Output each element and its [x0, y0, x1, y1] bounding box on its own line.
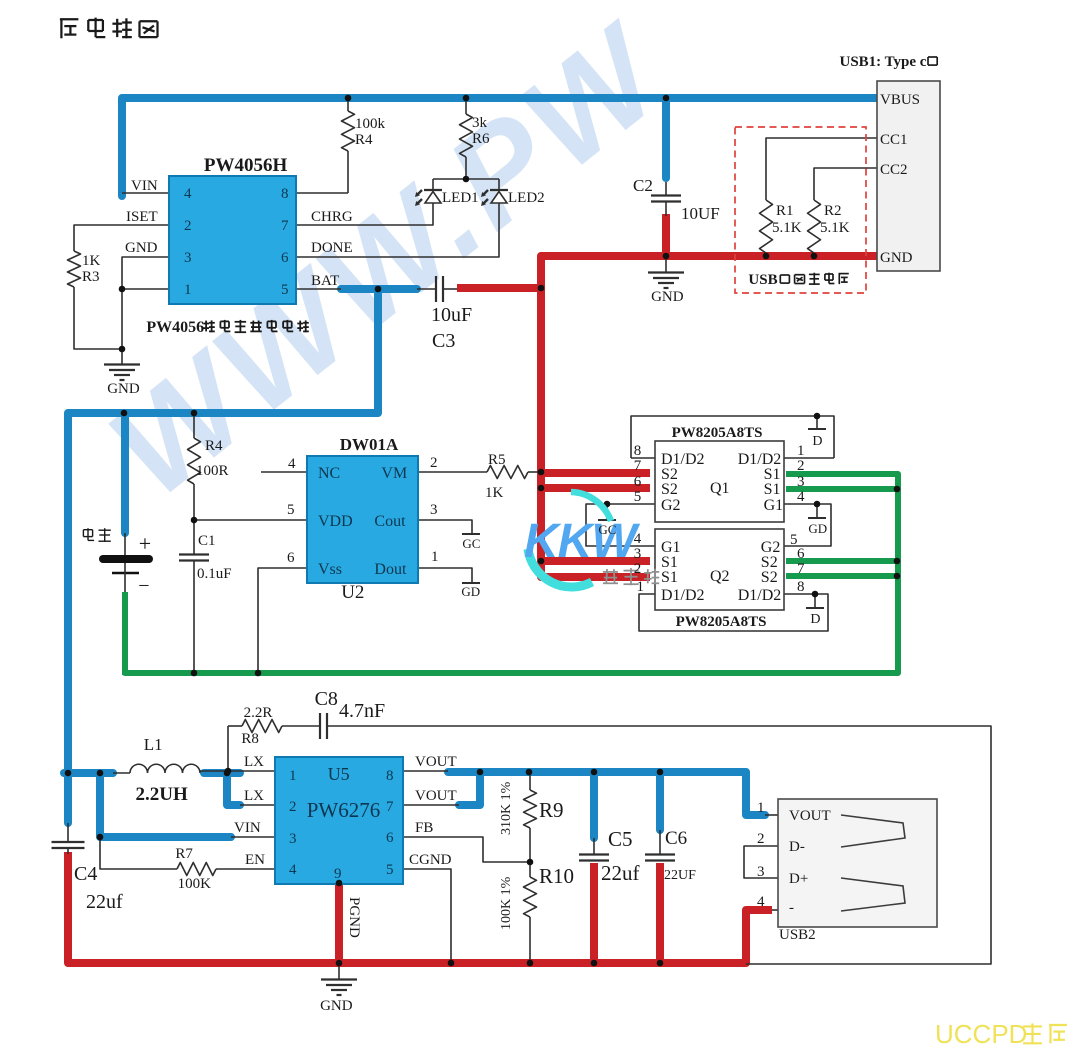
svg-text:U5: U5: [328, 764, 350, 784]
svg-text:C6: C6: [665, 828, 687, 849]
svg-text:3: 3: [430, 502, 438, 518]
svg-text:9: 9: [334, 866, 342, 882]
svg-text:S2: S2: [661, 481, 678, 498]
svg-text:UCCPD: UCCPD: [935, 1019, 1027, 1047]
svg-text:GND: GND: [651, 289, 684, 305]
svg-text:KKW: KKW: [524, 515, 640, 568]
svg-text:7: 7: [634, 458, 642, 474]
svg-text:R9: R9: [539, 798, 564, 822]
svg-text:LED1: LED1: [442, 190, 479, 206]
svg-text:1K: 1K: [485, 485, 504, 501]
svg-text:LX: LX: [244, 754, 264, 770]
svg-text:7: 7: [281, 218, 289, 234]
svg-text:D-: D-: [789, 839, 805, 855]
svg-text:2: 2: [184, 218, 192, 234]
svg-text:-: -: [789, 900, 794, 916]
svg-text:R4: R4: [355, 132, 373, 148]
svg-text:R3: R3: [82, 269, 100, 285]
svg-text:VBUS: VBUS: [880, 92, 920, 108]
svg-text:4: 4: [289, 862, 297, 878]
svg-text:1: 1: [431, 549, 439, 565]
svg-text:5: 5: [386, 862, 394, 878]
svg-text:LED2: LED2: [508, 190, 545, 206]
svg-text:5: 5: [287, 502, 295, 518]
svg-text:VDD: VDD: [318, 513, 353, 530]
svg-text:6: 6: [281, 250, 289, 266]
svg-text:VIN: VIN: [234, 820, 261, 836]
svg-text:GND: GND: [125, 240, 158, 256]
svg-text:22uf: 22uf: [601, 861, 640, 885]
svg-text:10uF: 10uF: [431, 304, 472, 326]
svg-text:22UF: 22UF: [664, 868, 696, 883]
svg-text:FB: FB: [415, 820, 433, 836]
svg-text:6: 6: [386, 830, 394, 846]
svg-text:D: D: [812, 434, 822, 449]
svg-text:2.2R: 2.2R: [244, 705, 273, 721]
svg-text:3k: 3k: [472, 115, 488, 131]
svg-text:1: 1: [797, 443, 805, 459]
svg-text:3: 3: [797, 474, 805, 490]
svg-text:S2: S2: [761, 569, 778, 586]
svg-text:0.1uF: 0.1uF: [197, 566, 232, 582]
svg-text:1: 1: [637, 579, 645, 595]
svg-text:D+: D+: [789, 871, 808, 887]
svg-text:C8: C8: [315, 688, 338, 710]
svg-text:100R: 100R: [196, 463, 229, 479]
svg-text:5: 5: [634, 489, 642, 505]
svg-text:8: 8: [797, 579, 805, 595]
svg-text:Cout: Cout: [374, 513, 406, 530]
svg-text:4: 4: [184, 186, 192, 202]
svg-text:100K 1%: 100K 1%: [499, 876, 514, 930]
svg-text:Q1: Q1: [710, 480, 730, 497]
svg-text:GD: GD: [808, 521, 827, 536]
svg-text:7: 7: [797, 561, 805, 577]
svg-text:G1: G1: [764, 497, 784, 514]
svg-text:8: 8: [634, 443, 642, 459]
svg-text:EN: EN: [245, 852, 265, 868]
svg-text:L1: L1: [144, 735, 163, 754]
svg-text:5.1K: 5.1K: [772, 220, 802, 236]
svg-text:2.2UH: 2.2UH: [136, 784, 188, 805]
svg-text:PW8205A8TS: PW8205A8TS: [676, 614, 767, 630]
svg-text:3: 3: [289, 831, 297, 847]
svg-text:USB1: Type c: USB1: Type c: [840, 54, 927, 70]
svg-text:VOUT: VOUT: [415, 788, 457, 804]
svg-text:3: 3: [184, 250, 192, 266]
svg-text:D: D: [810, 612, 820, 627]
svg-text:S1: S1: [661, 569, 678, 586]
svg-text:LX: LX: [244, 788, 264, 804]
svg-text:USB2: USB2: [779, 927, 816, 943]
svg-text:7: 7: [386, 799, 394, 815]
svg-text:C2: C2: [633, 176, 653, 195]
svg-text:22uf: 22uf: [86, 891, 123, 913]
svg-text:R5: R5: [488, 452, 506, 468]
svg-text:2: 2: [757, 831, 765, 847]
svg-text:6: 6: [797, 546, 805, 562]
svg-text:Q2: Q2: [710, 568, 730, 585]
svg-text:GC: GC: [462, 536, 480, 551]
svg-text:R8: R8: [241, 731, 259, 747]
svg-text:BAT: BAT: [311, 273, 339, 289]
svg-text:8: 8: [281, 186, 289, 202]
svg-text:5: 5: [281, 282, 289, 298]
svg-text:Vss: Vss: [318, 561, 342, 578]
svg-text:VM: VM: [381, 465, 407, 482]
svg-text:1: 1: [289, 768, 297, 784]
svg-text:U2: U2: [341, 582, 364, 603]
svg-text:D1/D2: D1/D2: [738, 587, 782, 604]
svg-text:6: 6: [287, 550, 295, 566]
svg-text:GND: GND: [107, 381, 140, 397]
svg-text:DW01A: DW01A: [340, 435, 399, 454]
svg-text:PW8205A8TS: PW8205A8TS: [672, 425, 763, 441]
svg-text:GND: GND: [320, 998, 353, 1014]
svg-text:2: 2: [289, 799, 297, 815]
svg-text:D1/D2: D1/D2: [661, 587, 705, 604]
svg-text:4: 4: [288, 456, 296, 472]
svg-text:310K 1%: 310K 1%: [499, 781, 514, 835]
svg-text:NC: NC: [318, 465, 340, 482]
svg-text:VOUT: VOUT: [415, 754, 457, 770]
svg-text:C4: C4: [74, 863, 97, 885]
svg-text:GC: GC: [598, 522, 616, 537]
svg-text:GD: GD: [461, 584, 480, 599]
svg-text:8: 8: [386, 768, 394, 784]
svg-text:VIN: VIN: [131, 178, 158, 194]
svg-text:+: +: [139, 531, 151, 556]
svg-text:100k: 100k: [355, 116, 386, 132]
svg-text:PW6276: PW6276: [307, 798, 381, 822]
svg-text:2: 2: [634, 561, 642, 577]
svg-text:R6: R6: [472, 131, 490, 147]
svg-text:2: 2: [430, 455, 438, 471]
svg-text:3: 3: [757, 864, 765, 880]
svg-text:1: 1: [184, 282, 192, 298]
svg-text:4: 4: [634, 531, 642, 547]
svg-text:PW4056: PW4056: [146, 319, 204, 336]
svg-text:1K: 1K: [82, 253, 101, 269]
svg-text:CC2: CC2: [880, 162, 908, 178]
svg-text:C5: C5: [608, 827, 633, 851]
svg-text:CGND: CGND: [409, 852, 452, 868]
svg-text:C3: C3: [432, 330, 455, 352]
svg-text:10UF: 10UF: [681, 204, 720, 223]
svg-text:4.7nF: 4.7nF: [339, 700, 385, 722]
svg-text:1: 1: [757, 800, 765, 816]
svg-text:4: 4: [757, 894, 765, 910]
svg-text:Dout: Dout: [374, 561, 407, 578]
svg-text:R1: R1: [776, 203, 794, 219]
svg-text:PW4056H: PW4056H: [204, 155, 288, 176]
svg-text:R4: R4: [205, 438, 223, 454]
svg-text:2: 2: [797, 458, 805, 474]
svg-text:G2: G2: [661, 497, 681, 514]
svg-text:GND: GND: [880, 250, 913, 266]
svg-text:CHRG: CHRG: [311, 209, 353, 225]
svg-text:VOUT: VOUT: [789, 808, 831, 824]
svg-text:CC1: CC1: [880, 132, 908, 148]
svg-text:R7: R7: [175, 846, 193, 862]
svg-text:3: 3: [634, 546, 642, 562]
svg-text:5.1K: 5.1K: [820, 220, 850, 236]
svg-text:6: 6: [634, 474, 642, 490]
svg-text:C1: C1: [198, 533, 216, 549]
svg-text:R2: R2: [824, 203, 842, 219]
svg-text:4: 4: [797, 489, 805, 505]
svg-text:USB: USB: [748, 272, 777, 288]
svg-text:S1: S1: [764, 481, 781, 498]
svg-text:PGND: PGND: [346, 897, 362, 938]
svg-text:R10: R10: [539, 864, 574, 888]
svg-text:100K: 100K: [178, 876, 212, 892]
svg-text:ISET: ISET: [126, 209, 158, 225]
svg-text:−: −: [138, 575, 149, 597]
svg-text:DONE: DONE: [311, 240, 353, 256]
